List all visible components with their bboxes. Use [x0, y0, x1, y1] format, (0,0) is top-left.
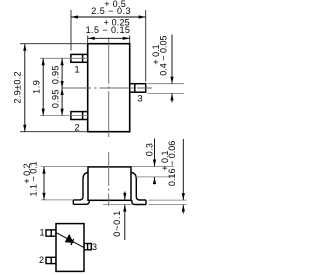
svg-text:1.5 − 0.15: 1.5 − 0.15	[86, 25, 131, 35]
value label 1.1 +0.2/-0.1 (rotated block)	[22, 161, 39, 196]
svg-text:2.5 − 0.3: 2.5 − 0.3	[91, 6, 131, 16]
svg-text:1.1 − 0.1: 1.1 − 0.1	[29, 161, 39, 196]
svg-text:0.16 − 0.06: 0.16 − 0.06	[167, 141, 177, 186]
dimension 2.9 extension line bottom	[20, 131, 87, 133]
value label 0.4 +0.1/-0.05 (rotated block)	[151, 35, 169, 75]
wire horizontal center line (top view)	[62, 87, 152, 89]
dimension 0.16 extension line top	[149, 199, 187, 201]
pin 1 stub (symbol)	[46, 230, 56, 236]
package body (side view)	[88, 167, 131, 200]
dimension 2.9 line with arrows	[23, 44, 26, 132]
dimension 1.1 line with arrows	[42, 167, 45, 200]
dimension 0.3 extension line bottom	[135, 176, 175, 178]
dimension 1.5 line with arrows	[88, 37, 130, 40]
lead left (side view gull-wing)	[73, 172, 89, 204]
dimension 2.5 extension line left	[70, 10, 72, 51]
diode D1 triangle	[65, 235, 73, 243]
pin 1 (top view lead)	[71, 54, 88, 62]
value label 0.16 +0.1/-0.06 (rotated block)	[160, 141, 177, 186]
dimension 0.16 line with arrows	[182, 139, 185, 214]
diode D1 cathode bar	[71, 239, 74, 245]
dimension 0.16 extension line bottom	[149, 204, 187, 206]
svg-text:2.9±0.2: 2.9±0.2	[12, 71, 22, 103]
wire diode diagonal pin1 to pin3	[56, 233, 84, 248]
pin 2 stub (symbol)	[46, 257, 56, 263]
dimension 2.5 line with arrows	[71, 15, 146, 18]
node pin2 center extension line	[40, 115, 88, 117]
wire vertical center line (top view)	[108, 38, 110, 137]
svg-text:3: 3	[92, 242, 97, 252]
dimension 0.3 line with arrows	[153, 139, 156, 185]
pin 2 (top view lead)	[71, 112, 88, 120]
svg-text:3: 3	[137, 94, 142, 105]
lead right (side view gull-wing)	[131, 172, 146, 204]
svg-text:2: 2	[39, 255, 44, 265]
dimension 0.3 extension line top	[132, 166, 174, 168]
dimension 2.9 extension line top	[20, 43, 87, 45]
svg-text:0~0.1: 0~0.1	[112, 210, 122, 237]
dimension 0.4 extension line bottom	[148, 92, 185, 94]
dimension 1.1 extension line bottom	[41, 199, 73, 201]
pin 3 stub (symbol)	[84, 244, 91, 250]
dimension 1.1 extension line top	[41, 166, 87, 168]
svg-text:0.95: 0.95	[51, 65, 61, 84]
package body (top view)	[88, 44, 130, 132]
svg-text:0.3: 0.3	[144, 143, 154, 156]
svg-text:1: 1	[74, 64, 79, 75]
dimension 0~0.1 line with arrows	[123, 192, 126, 241]
dimension 0.4 line with arrows	[170, 35, 173, 103]
node pin1 center extension line	[40, 57, 88, 59]
wire vertical center line (side view)	[108, 152, 110, 206]
dimension 1.9 line with arrows	[42, 58, 45, 115]
dimension 1.5 extension tick right	[129, 36, 131, 44]
dimension 0.95 line with arrows	[61, 58, 64, 115]
dimension 0.4 extension line top	[148, 83, 185, 85]
symbol body outline	[56, 224, 84, 272]
svg-text:1.9: 1.9	[32, 80, 42, 94]
dimension 0~0.1 extension line seating	[103, 204, 132, 206]
svg-text:0.4 − 0.05: 0.4 − 0.05	[159, 35, 169, 75]
dimension 2.5 extension line right	[145, 10, 147, 82]
dimension 1.5 extension tick left	[87, 36, 89, 44]
pin 3 (top view lead)	[130, 84, 146, 93]
svg-text:1: 1	[39, 228, 44, 238]
svg-text:0.95: 0.95	[51, 89, 61, 108]
